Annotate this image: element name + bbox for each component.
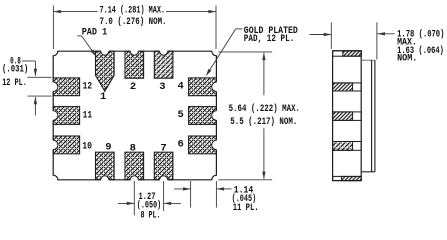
svg-text:5: 5 — [178, 109, 184, 121]
dim 5.64 height: extension lines — [219, 51, 273, 53]
side view bottom metallization band — [333, 176, 362, 180]
dim 1.14: arrows — [174, 188, 190, 190]
dim 5.64 height: dimension line + arrows — [262, 53, 265, 61]
pad 1 (pentagon, top-left) — [96, 51, 115, 91]
svg-text:9: 9 — [105, 142, 111, 154]
pad 2 — [125, 51, 144, 78]
pad 3 (diagonal hatch) — [154, 51, 173, 78]
svg-text:4: 4 — [178, 81, 184, 93]
svg-text:PAD, 12 PL.: PAD, 12 PL. — [244, 34, 294, 45]
dim 7.14 width: dimension line + arrows — [53, 11, 97, 13]
pad 6 — [189, 136, 217, 154]
notch pad 2 — [130, 47, 138, 55]
pad 5 — [189, 107, 217, 125]
svg-text:11 PL.: 11 PL. — [233, 203, 259, 214]
side view body — [333, 51, 362, 181]
svg-text:8 PL.: 8 PL. — [141, 210, 161, 221]
pad 7 — [154, 152, 173, 180]
pad 10 — [53, 136, 79, 154]
svg-text:7.14 (.281) MAX.: 7.14 (.281) MAX. — [100, 5, 166, 17]
svg-text:11: 11 — [83, 110, 93, 122]
dim 1.78 thickness: extension lines — [330, 22, 332, 49]
pad 4 — [189, 78, 217, 96]
notch pad 4 — [212, 82, 221, 91]
svg-text:6: 6 — [178, 139, 184, 151]
notch pad 3 — [160, 47, 168, 55]
dim 0.8 leader lines — [22, 60, 35, 62]
svg-text:12: 12 — [83, 81, 93, 93]
side view castellation band (bottom) — [333, 142, 362, 151]
pad 11 — [53, 107, 79, 125]
svg-text:(.031): (.031) — [2, 64, 28, 76]
side view castellation band (middle) — [333, 112, 362, 121]
svg-text:12 PL.: 12 PL. — [2, 78, 27, 89]
package body outline (front view) — [53, 51, 216, 180]
notch pad 7 — [160, 176, 168, 184]
pad 12 — [53, 78, 79, 96]
svg-text:5.64 (.222) MAX.: 5.64 (.222) MAX. — [229, 103, 300, 115]
notch pad 8 — [130, 176, 138, 184]
notch pad 12 — [49, 82, 58, 91]
svg-text:2: 2 — [130, 81, 136, 93]
svg-text:5.5 (.217) NOM.: 5.5 (.217) NOM. — [230, 116, 297, 128]
svg-text:3: 3 — [159, 81, 165, 93]
notch pad 10 — [49, 140, 58, 149]
notch pad 6 — [212, 140, 221, 149]
dim 1.78: arrows — [310, 34, 332, 36]
notch pad 9 — [101, 176, 109, 184]
notch pad 1 — [101, 47, 109, 55]
dim 1.27 pitch: arrows — [118, 202, 134, 204]
dim 7.14 width: extension lines — [52, 6, 54, 50]
svg-text:7.0 (.276) NOM.: 7.0 (.276) NOM. — [100, 16, 167, 28]
svg-text:8: 8 — [130, 143, 136, 155]
side view lid — [362, 59, 375, 61]
dim 1.27 pitch: extension lines — [133, 181, 135, 215]
side view top metallization band — [333, 51, 362, 56]
dim 1.14: extension lines — [190, 181, 192, 208]
side view castellation band (top) — [333, 83, 362, 91]
svg-text:10: 10 — [82, 141, 92, 153]
pad 8 — [125, 152, 144, 180]
notch pad 5 — [212, 111, 221, 120]
pad 9 — [96, 152, 115, 180]
notch pad 11 — [49, 111, 58, 120]
svg-text:NOM.: NOM. — [397, 54, 417, 65]
svg-text:7: 7 — [160, 143, 166, 155]
svg-text:PAD 1: PAD 1 — [82, 28, 108, 39]
svg-text:1: 1 — [100, 91, 106, 103]
